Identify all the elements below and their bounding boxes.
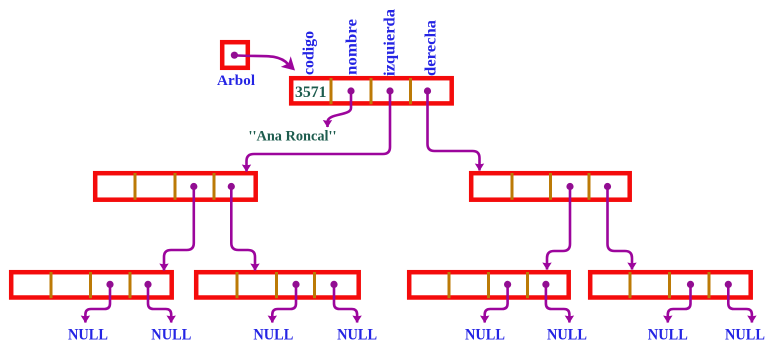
dot leaf3 ptr3 [504, 281, 511, 288]
arrow leaf3 ptr4 to NULL [546, 284, 570, 323]
Arbol pointer box [222, 42, 248, 68]
svg-text:NULL: NULL [547, 327, 587, 344]
node leaf 4 [590, 272, 751, 298]
dot in Arbol box [231, 52, 238, 59]
svg-text:''Ana Roncal'': ''Ana Roncal'' [249, 129, 337, 145]
arrow derecha to right child [428, 91, 480, 171]
dot leaf1 ptr3 [106, 281, 113, 288]
node root [291, 78, 452, 104]
svg-text:Arbol: Arbol [217, 73, 255, 89]
arrow Arbol to root [237, 56, 288, 65]
dot leaf4 ptr4 [725, 281, 732, 288]
svg-text:NULL: NULL [337, 327, 377, 344]
svg-text:codigo: codigo [301, 31, 318, 75]
dot left child ptr4 [228, 183, 235, 190]
arrow leaf1 ptr3 to NULL [85, 284, 110, 323]
svg-text:NULL: NULL [68, 327, 108, 344]
arrow leaf1 ptr4 to NULL [148, 284, 171, 323]
svg-text:NULL: NULL [725, 327, 765, 344]
dot right child ptr4 [604, 183, 611, 190]
arrow left child ptr4 to leaf 2 [231, 187, 255, 271]
svg-text:nombre: nombre [344, 19, 361, 75]
node right child [471, 173, 630, 200]
dot leaf1 ptr4 [144, 281, 151, 288]
node leaf 1 [11, 272, 172, 298]
arrow nombre to Ana Roncal [328, 91, 352, 127]
arrow leaf2 ptr3 to NULL [272, 284, 296, 323]
dot leaf2 ptr4 [330, 281, 337, 288]
dot leaf2 ptr3 [292, 281, 299, 288]
arrow right child ptr4 to leaf 4 [608, 187, 633, 270]
arrow leaf3 ptr3 to NULL [485, 284, 508, 323]
node left child [95, 173, 256, 200]
arrow izquierda to left child [247, 91, 391, 172]
dot root izquierda [386, 87, 393, 94]
svg-text:3571: 3571 [295, 84, 327, 101]
dot leaf3 ptr4 [542, 281, 549, 288]
svg-text:NULL: NULL [648, 327, 688, 344]
arrow leaf2 ptr4 to NULL [334, 284, 357, 323]
svg-text:derecha: derecha [423, 20, 440, 76]
dot left child ptr3 [190, 183, 197, 190]
dot right child ptr3 [566, 183, 573, 190]
svg-text:izquierda: izquierda [382, 9, 399, 76]
dot root derecha [424, 87, 431, 94]
svg-text:NULL: NULL [253, 327, 293, 344]
node leaf 2 [196, 272, 359, 298]
arrow right child ptr3 to leaf 3 [547, 187, 570, 270]
dot leaf4 ptr3 [687, 281, 694, 288]
arrow left child ptr3 to leaf 1 [164, 187, 194, 271]
arrow leaf4 ptr3 to NULL [668, 284, 691, 323]
svg-text:NULL: NULL [151, 327, 191, 344]
svg-text:NULL: NULL [465, 327, 505, 344]
arrow leaf4 ptr4 to NULL [728, 284, 752, 323]
dot root nombre [347, 87, 354, 94]
node leaf 3 [409, 272, 569, 298]
